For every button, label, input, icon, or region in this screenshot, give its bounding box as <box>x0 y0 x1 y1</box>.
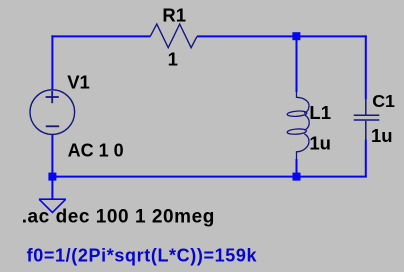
svg-text:AC 1 0: AC 1 0 <box>68 140 124 160</box>
svg-text:.ac dec 100 1 20meg: .ac dec 100 1 20meg <box>22 206 215 227</box>
svg-text:f0=1/(2Pi*sqrt(L*C))=159k: f0=1/(2Pi*sqrt(L*C))=159k <box>27 245 258 265</box>
svg-text:V1: V1 <box>67 71 90 92</box>
svg-text:C1: C1 <box>372 91 395 111</box>
svg-text:1u: 1u <box>371 125 393 146</box>
svg-text:1u: 1u <box>309 132 331 153</box>
svg-text:1: 1 <box>168 48 178 69</box>
svg-text:L1: L1 <box>309 102 331 123</box>
svg-text:R1: R1 <box>162 5 186 26</box>
